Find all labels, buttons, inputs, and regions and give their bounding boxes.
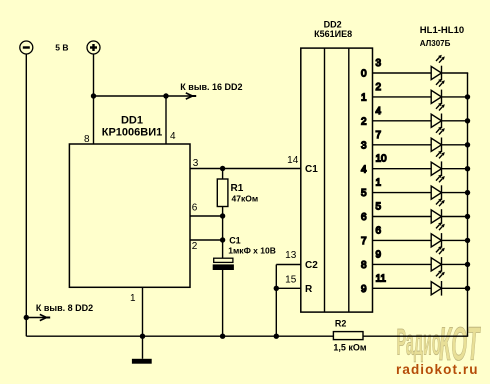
svg-text:HL1-HL10: HL1-HL10 bbox=[420, 25, 464, 36]
wire bottom rail right of R2 bbox=[363, 335, 468, 337]
svg-text:14: 14 bbox=[287, 155, 299, 166]
svg-text:4: 4 bbox=[361, 164, 367, 175]
LED HL3 bbox=[431, 103, 445, 129]
svg-text:Радио: Радио bbox=[397, 320, 441, 362]
wire HL3 cathode to bus bbox=[442, 120, 469, 122]
svg-text:8: 8 bbox=[361, 260, 367, 271]
junction on cathode bus row 6 bbox=[465, 214, 470, 219]
counter IC DD2 box bbox=[301, 48, 373, 312]
svg-text:radiokot.ru: radiokot.ru bbox=[396, 362, 479, 377]
wire output 3 from DD2 pin 7 to HL4 bbox=[373, 144, 432, 146]
power terminal plus bbox=[87, 41, 100, 54]
svg-text:1,5 кОм: 1,5 кОм bbox=[333, 343, 367, 353]
LED HL6 bbox=[431, 174, 445, 200]
svg-text:C1: C1 bbox=[229, 235, 241, 245]
wire HL1 cathode to bus bbox=[442, 72, 469, 74]
arrow to pin 16 DD2 bbox=[166, 93, 196, 99]
svg-text:4: 4 bbox=[170, 131, 176, 142]
junction pin3/R1 bbox=[220, 166, 225, 171]
junction on cathode bus row 7 bbox=[465, 238, 470, 243]
svg-text:10: 10 bbox=[376, 154, 388, 165]
svg-text:2: 2 bbox=[192, 241, 198, 252]
svg-text:8: 8 bbox=[84, 134, 90, 145]
wire output 5 from DD2 pin 1 to HL6 bbox=[373, 192, 432, 194]
cathode bus vertical bbox=[467, 73, 469, 336]
wire DD2 R pin 15 bbox=[276, 287, 301, 289]
svg-text:7: 7 bbox=[361, 236, 367, 247]
wire output 0 from DD2 pin 3 to HL1 bbox=[373, 72, 432, 74]
wire output 4 from DD2 pin 10 to HL5 bbox=[373, 168, 432, 170]
junction pin2/C1 bbox=[220, 237, 225, 242]
junction bracket on bottom rail bbox=[274, 334, 279, 339]
svg-text:4: 4 bbox=[376, 106, 382, 117]
junction at pin4 branch bbox=[163, 93, 168, 98]
op IC DD1 box bbox=[69, 144, 190, 287]
svg-text:5: 5 bbox=[376, 202, 382, 213]
wire DD1 pin 2 bbox=[190, 239, 223, 241]
wire output 6 from DD2 pin 5 to HL7 bbox=[373, 216, 432, 218]
junction on cathode bus row 1 bbox=[465, 94, 470, 99]
svg-text:6: 6 bbox=[361, 212, 367, 223]
wire DD1 pin 1 drop bbox=[142, 287, 144, 336]
svg-text:К выв. 8 DD2: К выв. 8 DD2 bbox=[36, 303, 93, 313]
junction on cathode bus row 3 bbox=[465, 142, 470, 147]
svg-text:АЛ307Б: АЛ307Б bbox=[420, 39, 451, 48]
svg-text:13: 13 bbox=[285, 250, 297, 261]
svg-text:КР1006ВИ1: КР1006ВИ1 bbox=[102, 126, 163, 138]
svg-text:5 В: 5 В bbox=[55, 43, 68, 53]
svg-text:11: 11 bbox=[376, 273, 387, 284]
svg-text:47кОм: 47кОм bbox=[232, 194, 259, 204]
LED HL4 bbox=[431, 126, 445, 152]
svg-text:1: 1 bbox=[361, 93, 367, 104]
wire HL7 cathode to bus bbox=[442, 216, 469, 218]
wire output 7 from DD2 pin 6 to HL8 bbox=[373, 239, 432, 241]
junction on cathode bus row 5 bbox=[465, 190, 470, 195]
svg-text:15: 15 bbox=[285, 274, 297, 285]
resistor R1 bbox=[217, 169, 228, 217]
svg-text:3: 3 bbox=[376, 58, 382, 69]
wire output 1 from DD2 pin 2 to HL2 bbox=[373, 96, 432, 98]
junction pin1 rail bbox=[140, 334, 145, 339]
svg-text:2: 2 bbox=[376, 82, 382, 93]
junction at plus rail bbox=[91, 93, 96, 98]
watermark RadioKOT bbox=[397, 317, 481, 370]
svg-text:DD2: DD2 bbox=[324, 19, 342, 29]
svg-text:1: 1 bbox=[376, 178, 382, 189]
wire HL10 cathode to bus bbox=[442, 287, 469, 289]
wire HL6 cathode to bus bbox=[442, 192, 469, 194]
wire HL5 cathode to bus bbox=[442, 168, 469, 170]
wire DD1 pin 3 to DD2 C1 (pin 14) bbox=[190, 168, 301, 170]
LED HL1 bbox=[431, 55, 445, 81]
svg-text:1: 1 bbox=[130, 293, 136, 304]
wire DD2 C2 pin 13 bbox=[276, 264, 301, 266]
junction R pin on bracket bbox=[274, 286, 279, 291]
junction on cathode bus row 2 bbox=[465, 118, 470, 123]
LED HL2 bbox=[431, 79, 445, 105]
svg-text:9: 9 bbox=[361, 284, 367, 295]
svg-text:6: 6 bbox=[376, 225, 382, 236]
junction pin6 bbox=[220, 213, 225, 218]
svg-text:R2: R2 bbox=[335, 318, 347, 328]
junction on cathode bus row 9 bbox=[465, 286, 470, 291]
wire output 8 from DD2 pin 9 to HL9 bbox=[373, 263, 432, 265]
junction C1 bottom rail bbox=[220, 334, 225, 339]
svg-text:7: 7 bbox=[376, 130, 382, 141]
LED HL10 bbox=[431, 270, 445, 296]
resistor R2 bbox=[333, 332, 363, 340]
LED HL8 bbox=[431, 222, 445, 248]
svg-text:R1: R1 bbox=[231, 183, 244, 194]
wire pin6 to pin2 node bbox=[222, 216, 224, 240]
wire plus terminal down to DD1 pin 8 bbox=[93, 54, 95, 144]
ground bbox=[132, 336, 152, 363]
arrow to pin 8 DD2 bbox=[24, 314, 51, 320]
svg-text:6: 6 bbox=[192, 203, 198, 214]
wire output 9 from DD2 pin 11 to HL10 bbox=[373, 287, 432, 289]
wire HL9 cathode to bus bbox=[442, 263, 469, 265]
LED HL9 bbox=[431, 246, 445, 272]
svg-text:5: 5 bbox=[361, 188, 367, 199]
power terminal minus bbox=[20, 41, 33, 54]
svg-text:К выв. 16 DD2: К выв. 16 DD2 bbox=[180, 82, 242, 92]
svg-text:C1: C1 bbox=[305, 164, 318, 175]
svg-text:R: R bbox=[305, 284, 313, 295]
svg-text:2: 2 bbox=[361, 116, 367, 127]
wire output 2 from DD2 pin 4 to HL3 bbox=[373, 120, 432, 122]
svg-text:9: 9 bbox=[376, 249, 382, 260]
svg-text:1мкФ х 10В: 1мкФ х 10В bbox=[228, 245, 276, 255]
wire C2/R bracket vertical bbox=[275, 265, 277, 337]
wire HL2 cathode to bus bbox=[442, 96, 469, 98]
wire DD1 pin 6 bbox=[190, 215, 223, 217]
svg-text:К561ИЕ8: К561ИЕ8 bbox=[314, 29, 352, 39]
junction on cathode bus row 8 bbox=[465, 262, 470, 267]
svg-text:C2: C2 bbox=[305, 260, 318, 271]
LED HL5 bbox=[431, 150, 445, 176]
wire pin 4 drop bbox=[165, 96, 167, 144]
svg-text:3: 3 bbox=[361, 140, 367, 151]
capacitor C1 bbox=[213, 240, 233, 336]
wire minus rail left vertical bbox=[25, 54, 27, 337]
wire bottom rail left of R2 bbox=[26, 335, 333, 337]
svg-text:3: 3 bbox=[193, 158, 199, 169]
junction on cathode bus row 4 bbox=[465, 166, 470, 171]
svg-text:0: 0 bbox=[361, 69, 367, 80]
wire HL8 cathode to bus bbox=[442, 239, 469, 241]
svg-text:DD1: DD1 bbox=[121, 115, 143, 127]
LED HL7 bbox=[431, 198, 445, 224]
wire top rail to pin 4 bbox=[94, 95, 167, 97]
wire HL4 cathode to bus bbox=[442, 144, 469, 146]
